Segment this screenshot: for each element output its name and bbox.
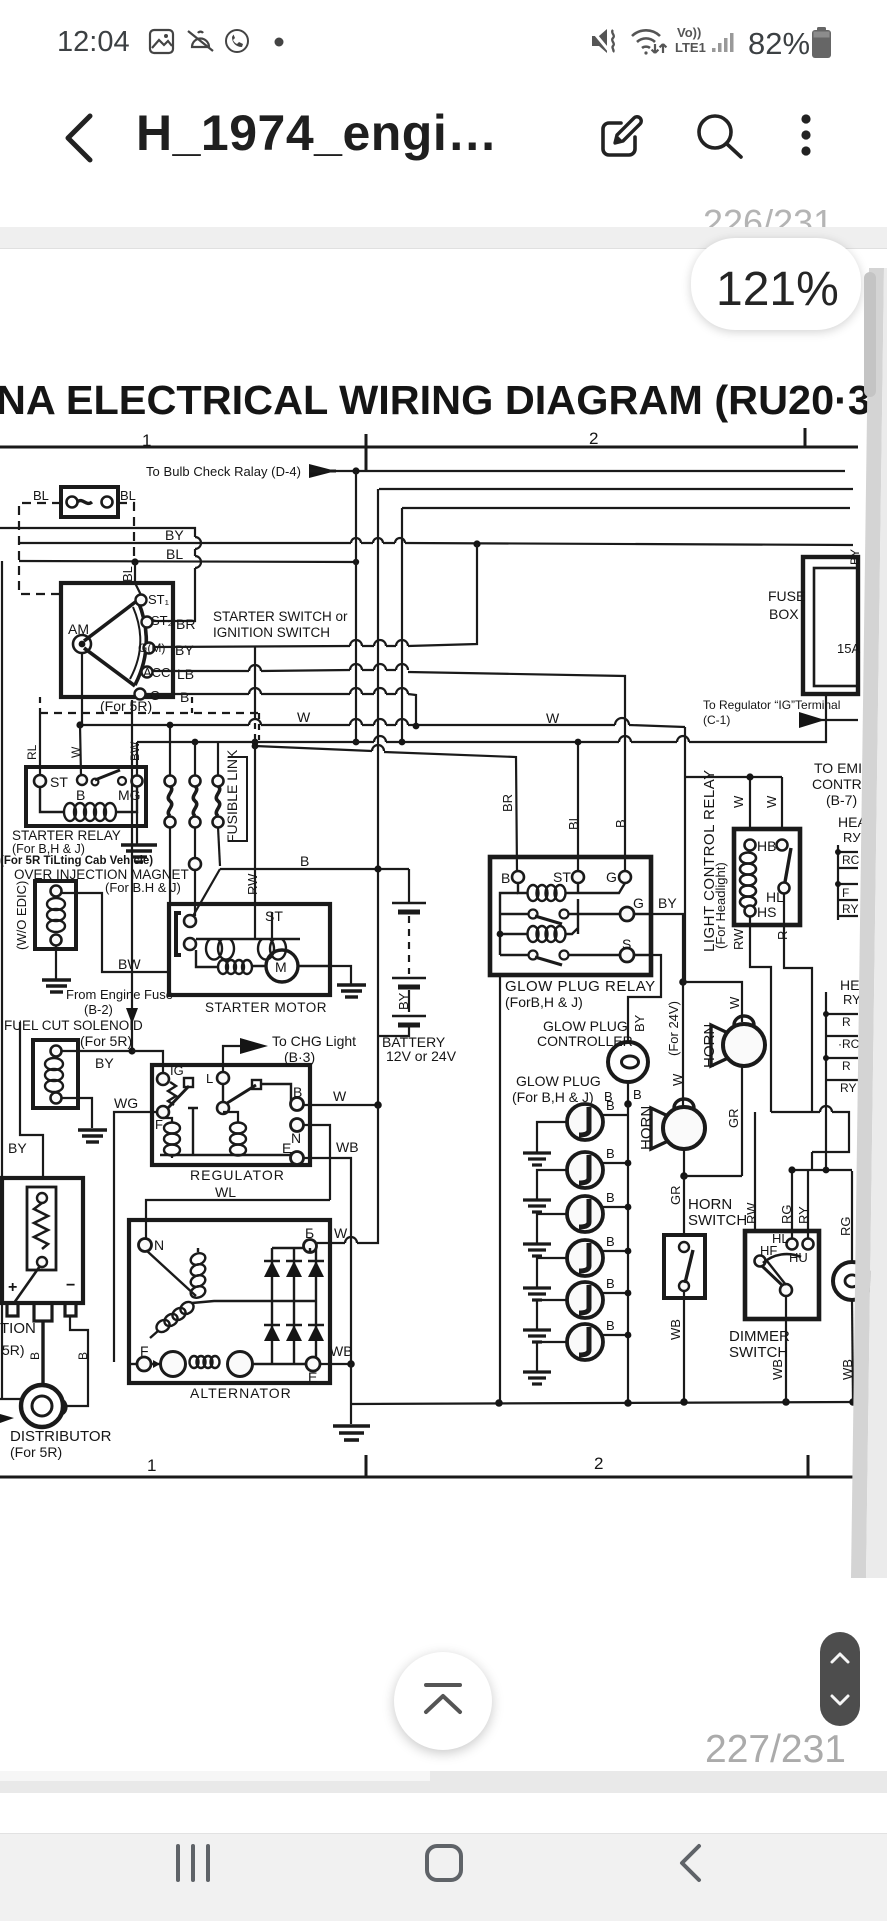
status icons left (148, 28, 293, 56)
glow plug 6 (567, 1324, 603, 1360)
switch contact top (777, 840, 788, 851)
terminal ST (starter relay) (34, 775, 46, 787)
ground: starter motor (337, 985, 366, 997)
terminal B (512, 871, 524, 883)
wire: plug1 B wire (585, 1104, 628, 1115)
hop: BY over x378 (373, 538, 383, 543)
hop: row over x378 (374, 736, 386, 742)
wire: fusible feeds from W row (170, 725, 218, 776)
wire: plug5 B wire (602, 1292, 628, 1294)
227/231 (705, 1728, 846, 1772)
node: coil2 left (497, 931, 504, 938)
relay switch row 1 (529, 910, 538, 919)
over injection magnet box (35, 881, 76, 949)
wire: alt E to WB vertical (320, 1363, 351, 1365)
brush 1 (161, 1352, 186, 1377)
back chevron (58, 112, 100, 164)
VoLTE (675, 25, 706, 55)
ground: fuel cut (78, 1130, 107, 1142)
wire: plug6 B wire (602, 1334, 628, 1336)
glow plug relay box (490, 857, 651, 975)
lamp (right) (833, 1262, 871, 1300)
terminal E (regulator) (291, 1152, 304, 1165)
wire: L square to B (261, 1084, 291, 1104)
wire: horn switch to bottom bus (683, 1291, 685, 1402)
wire: starter motor to ground (330, 966, 351, 984)
right edge row stubs upper (838, 845, 858, 920)
wire: vertical x400 (401, 508, 403, 742)
wire: BR row from RW junction (255, 746, 517, 872)
terminal G (135, 689, 146, 700)
horn (middle) (651, 1099, 705, 1149)
node: bottom bus junctions (495, 1399, 503, 1407)
relay coil 2 (500, 933, 528, 935)
coil terminal top (37, 1193, 47, 1203)
wire: BL bus (19, 561, 356, 562)
ground: magnet (42, 980, 71, 992)
terminal HF (755, 1256, 766, 1267)
wire: magnet to ground (55, 945, 57, 979)
bottom ruler (0, 1455, 858, 1477)
glow plug 2 (567, 1152, 603, 1188)
scrollbar (864, 272, 876, 397)
wire: RW vertical (254, 647, 256, 904)
wire: plug3 B wire (602, 1206, 628, 1208)
glow plug controller (608, 1042, 648, 1082)
wire: controller to B bus (627, 1082, 629, 1104)
wire: dashed BL from fuse right (118, 503, 134, 558)
wire: G/B row (146, 694, 416, 726)
hop: BY over x400 (395, 538, 405, 543)
terminal ST2 (142, 617, 153, 628)
wire: coil center to distributor (41, 1321, 44, 1384)
ignition coil inner box (27, 1187, 56, 1270)
wire: RL down to starter relay (39, 713, 41, 775)
node: W row at x80 (76, 721, 83, 728)
fusible link 1 (165, 776, 176, 787)
brush 2 (228, 1352, 253, 1377)
arrow: To CHG Light (240, 1038, 268, 1054)
blade L (224, 1085, 256, 1105)
node: W net junction (374, 1101, 382, 1109)
wire: dashed BL from fuse left (19, 503, 61, 594)
wire: W net B-reg to x378 (304, 1104, 378, 1106)
search icon (694, 112, 746, 162)
wire: dashed row under switch (40, 712, 259, 714)
terminal HU (803, 1239, 814, 1250)
relay coil 1 (518, 883, 528, 893)
wire: W feed bus (685, 727, 782, 829)
wire: dashed stub x192 (191, 697, 193, 713)
switch contact bottom (779, 883, 790, 894)
arrow to regulator (799, 712, 825, 728)
terminal L (217, 1072, 229, 1084)
ground: starter relay (121, 845, 157, 862)
wire: B line to battery (220, 868, 409, 870)
horn switch box (664, 1235, 705, 1298)
wire: dashed stub at x40 (39, 697, 41, 713)
node: WB junction (347, 1360, 355, 1368)
coil resistor zigzag (34, 1203, 48, 1249)
wire: BL drop to switch (135, 562, 141, 595)
overflow menu (799, 112, 813, 160)
glow plug 4 (567, 1240, 603, 1276)
wire: mid horn top (682, 1100, 684, 1107)
hop: LB row hops (249, 664, 408, 671)
starter switch box (61, 583, 173, 697)
motor M (266, 950, 298, 982)
wire: link1 down to starter box corner (169, 827, 171, 904)
right edge row stubs lower (826, 992, 858, 1170)
regulator coil 1 (164, 1123, 180, 1156)
terminal F (157, 1106, 169, 1118)
node: junction at 683,982 (679, 978, 687, 986)
wire: S row out down to controller (628, 955, 661, 1042)
relay coil (40, 787, 64, 812)
terminal bottom (51, 1093, 62, 1104)
terminal HB (745, 840, 756, 851)
terminal B (regulator) (291, 1098, 304, 1111)
battery top drop (408, 869, 410, 903)
wire: plug2 B wire (602, 1162, 628, 1164)
contact square IG (184, 1078, 193, 1087)
hop: W row hops (249, 718, 629, 725)
wire: glow B bus vertical (627, 1104, 629, 1402)
wire: plug2 ground (537, 1170, 567, 1199)
terminal HS (745, 906, 756, 917)
hop: BR over BY bus (195, 537, 201, 549)
wire: link2 down with terminal (194, 827, 196, 858)
wire: BR net from left edge (0, 528, 195, 621)
relay switch row 2 (529, 951, 538, 960)
wire: x378 down to alt B (317, 1105, 378, 1243)
wire: long vertical x499 (499, 975, 501, 1402)
wire: upper horn down GR (741, 1066, 743, 1176)
wire: BW from magnet to starter motor (62, 893, 169, 972)
relay contact small (92, 779, 99, 786)
distributor (21, 1385, 63, 1427)
wire: N-reg to WL (304, 1125, 330, 1200)
wire: RW into box (254, 904, 256, 939)
terminal MG pair (118, 777, 126, 785)
node: BL bus end (353, 559, 359, 565)
wire: distributor left (0, 1398, 21, 1400)
fusible link bracket (228, 757, 247, 841)
battery plates (392, 903, 426, 1025)
terminal ST1 (136, 595, 147, 606)
terminal F (alternator) (137, 1357, 151, 1371)
hop: BY row hops (350, 640, 408, 646)
alternator bottom rail (129, 1363, 137, 1365)
wire: link3 down to B junction (218, 827, 220, 866)
node: fusible feed junctions (167, 722, 174, 729)
fusible link 3 (213, 776, 224, 787)
arrow to bulb check relay (309, 464, 336, 478)
wire: left edge vertical (1, 561, 3, 1399)
wire: BW drop from row740 (136, 742, 138, 776)
node: B bus top (624, 1100, 632, 1108)
up/down pill (820, 1632, 860, 1726)
page edge gray strip (right side of scanned page) (0, 248, 887, 1608)
diodes lower row (264, 1325, 324, 1341)
wire: WB net E-reg down (304, 1158, 351, 1363)
relay inner left rail (500, 893, 518, 955)
wire: G out to box edge (634, 913, 651, 915)
solenoid terminal 1 (184, 915, 196, 927)
ignition coil box (2, 1178, 83, 1303)
nav bar (0, 1833, 887, 1921)
contact bar mid (188, 1108, 198, 1155)
armature coil (196, 950, 218, 967)
wire: bus2 (379, 488, 853, 490)
wire: L to pivot (222, 1084, 224, 1102)
node: row740 junctions (192, 739, 199, 746)
wire: BY branch to coil (20, 1022, 43, 1178)
brush spring (190, 1356, 220, 1368)
switch blade (785, 848, 791, 882)
terminal ST (572, 871, 584, 883)
hop: over x351 (345, 1237, 357, 1243)
glow plug 3 (567, 1196, 603, 1232)
node: BY bus junction (473, 540, 480, 547)
wire: L to CHG arrow (223, 1046, 240, 1072)
dimmer pivot (780, 1284, 792, 1296)
starter motor box (169, 904, 330, 995)
wire: lamp bottom WB (852, 1300, 853, 1402)
signal bars (712, 33, 734, 52)
wire: GR down to horn switch (683, 1176, 685, 1235)
divider band between pages (0, 227, 887, 249)
wire: to bulb check relay bus (309, 470, 845, 472)
battery dashed link (408, 916, 410, 974)
fuse box outer (803, 557, 858, 694)
stator winding diagonal chain (154, 1299, 196, 1334)
wire: fuse feed row y748 (137, 694, 826, 742)
regulator coil 2 (230, 1123, 246, 1156)
wire: R from switch down (784, 894, 812, 1112)
wire: plug6 ground (537, 1342, 567, 1371)
wire: coil right lug down (66, 1316, 88, 1406)
wire: 24V vertical down (684, 777, 686, 982)
node: W feed junction (746, 773, 753, 780)
diode columns (272, 1248, 316, 1301)
magnet coil (47, 898, 65, 932)
wire: vertical x378 (to battery/B line) (377, 489, 379, 1103)
hop: fuse row over G riser (619, 736, 631, 742)
terminal B (alternator) (304, 1240, 317, 1253)
node: bus3 joins row (399, 739, 406, 746)
rotor lead diagonal (147, 1251, 196, 1296)
field coil loops (206, 939, 286, 960)
hop: BR over BL bus (195, 556, 201, 568)
terminal N (alternator) (139, 1239, 152, 1252)
page indicator 226/231 (clipped by band) (703, 202, 833, 244)
hop: y1112 over x826 (820, 1106, 832, 1112)
wire: horns junction link (684, 1175, 742, 1177)
terminal G out (620, 907, 634, 921)
wire: dimmer WB down (785, 1296, 787, 1402)
bottom page-break band (0, 1771, 887, 1793)
contact circle L-low (217, 1102, 229, 1114)
terminal ACC (142, 667, 153, 678)
node: B at x378 (374, 865, 381, 872)
dimmer blades (762, 1266, 783, 1286)
arrow: down into junction (126, 1008, 138, 1024)
hop: BR row over x378 (372, 745, 384, 751)
horn (upper right) (711, 1016, 765, 1066)
wire: plug4 B wire (602, 1250, 628, 1252)
wire: upper horn feed (683, 982, 742, 1022)
wire: WL line (146, 1200, 330, 1238)
wire: link2 into starter box (194, 870, 196, 916)
mute vibrate (591, 29, 614, 53)
node: B row joins W row (413, 723, 420, 730)
terminal E (alternator) (306, 1357, 320, 1371)
wire: ACC/LB row (153, 670, 625, 872)
switch fan sector (84, 600, 146, 686)
dimmer arc (763, 1254, 801, 1263)
blade to + (14, 1266, 40, 1303)
terminal top (51, 1046, 62, 1057)
terminal bottom (magnet) (51, 935, 62, 946)
diodes upper row (264, 1261, 324, 1277)
121% zoom pill (691, 238, 861, 330)
field coil bus (196, 938, 300, 941)
wire: MG to ground (136, 812, 138, 845)
relay coil (740, 853, 756, 908)
wire: solenoid feed from above (62, 700, 132, 1051)
wire: alt B internal (309, 1248, 311, 1253)
wire: plug3 ground (537, 1214, 567, 1243)
wire: S out (634, 954, 651, 956)
wire: plug5 ground (537, 1300, 567, 1329)
fuel cut solenoid box (33, 1040, 78, 1108)
edit icon (597, 111, 647, 161)
wire: dashed drop x259 (258, 713, 260, 740)
wire: to regulator arrow line (800, 719, 858, 721)
node: ST drop junction (575, 739, 582, 746)
node: junction on bus1 (352, 467, 359, 474)
light control relay box (734, 829, 800, 925)
node: BR row start (252, 743, 259, 750)
hop: B row hops (249, 688, 408, 694)
wire: mid horn bottom to junction (683, 1149, 685, 1176)
node: 792,1170 (788, 1166, 795, 1173)
wire: RW dashed segment (254, 712, 256, 745)
glow plug 5 (567, 1282, 603, 1318)
wire: RW from HS down (750, 917, 771, 1112)
fuse F1 (bulb check relay fuse) (61, 487, 118, 517)
solenoid bracket (176, 913, 181, 955)
terminal HL (787, 1239, 798, 1250)
wire: right tangle y1112 (771, 1112, 849, 1152)
wire: WB to ground and bus (350, 1364, 352, 1424)
terminal IG (157, 1073, 169, 1085)
arrow stub left (0, 1414, 14, 1423)
top ruler (0, 428, 858, 471)
wire: WG from F (114, 1112, 157, 1362)
node: horns junction (680, 1172, 688, 1180)
coil terminal bottom (37, 1257, 47, 1267)
switch rotor AM (73, 635, 91, 653)
coil lugs (7, 1303, 76, 1321)
wire: x812 segment (792, 1152, 852, 1238)
wire: RW to dimmer (754, 1112, 756, 1231)
status icons right (590, 24, 840, 60)
wifi (632, 30, 666, 54)
stator winding vertical chain (189, 1251, 207, 1299)
coil (45, 1058, 63, 1092)
winding leads (150, 1248, 250, 1338)
wire: fuel cut feed to regulator IG (132, 1051, 163, 1073)
wire: bus3 (402, 507, 850, 509)
terminal N (regulator) (291, 1119, 304, 1132)
starter relay box (26, 767, 146, 826)
hop: BY over x356 (351, 538, 361, 543)
terminal mid link2 (189, 858, 201, 870)
resistor zigzag (168, 1082, 176, 1105)
node: fuel cut junction (128, 1047, 135, 1054)
wire: BY bus (19, 543, 853, 545)
wire: bottom bus (351, 1402, 856, 1404)
glow plugs column (523, 1098, 631, 1384)
scroll to top circular button (394, 1652, 492, 1750)
contact square L (252, 1080, 261, 1089)
wire: ST drop from merged row (577, 742, 579, 872)
wire: vertical x356 (355, 471, 357, 742)
wire: diagonal into starter solenoid (193, 869, 220, 916)
wire: G row out to x683 down (For 24V) (651, 914, 683, 976)
wire: IG(M)/BY row to riser (155, 544, 477, 647)
relay blade (95, 770, 120, 780)
wire: lamp top RG (851, 1171, 853, 1262)
node: BL to switch (131, 558, 138, 565)
regulator bottom rail (160, 1152, 291, 1155)
alternator box (129, 1220, 330, 1383)
dimmer switch box (745, 1231, 819, 1319)
wire: plug4 ground (537, 1258, 567, 1287)
wire: AM drop to W row and relay (80, 653, 82, 776)
glow plug 1 (567, 1104, 603, 1140)
terminal IG(M) (144, 643, 155, 654)
terminal G (619, 871, 631, 883)
terminal top (magnet) (51, 886, 62, 897)
regulator box (152, 1065, 310, 1165)
wire: battery bottom jog (378, 1025, 409, 1036)
terminal W (starter relay) (77, 775, 87, 785)
wire: W row (80, 725, 685, 727)
blade F-IG (167, 1086, 189, 1109)
fuse box inner (814, 568, 858, 686)
battery (812, 27, 831, 58)
solenoid terminal 2 (184, 938, 196, 950)
wire: solenoid bottom to ground (62, 1098, 92, 1128)
hop: fuse row over 24V wire (677, 736, 689, 742)
fusible link 2 (190, 776, 201, 787)
wire: ST drop inside box (271, 912, 273, 939)
wire: plug1 ground (537, 1122, 567, 1152)
ground: alternator (333, 1426, 370, 1440)
horn switch contacts (679, 1242, 689, 1252)
terminal S (620, 948, 634, 962)
